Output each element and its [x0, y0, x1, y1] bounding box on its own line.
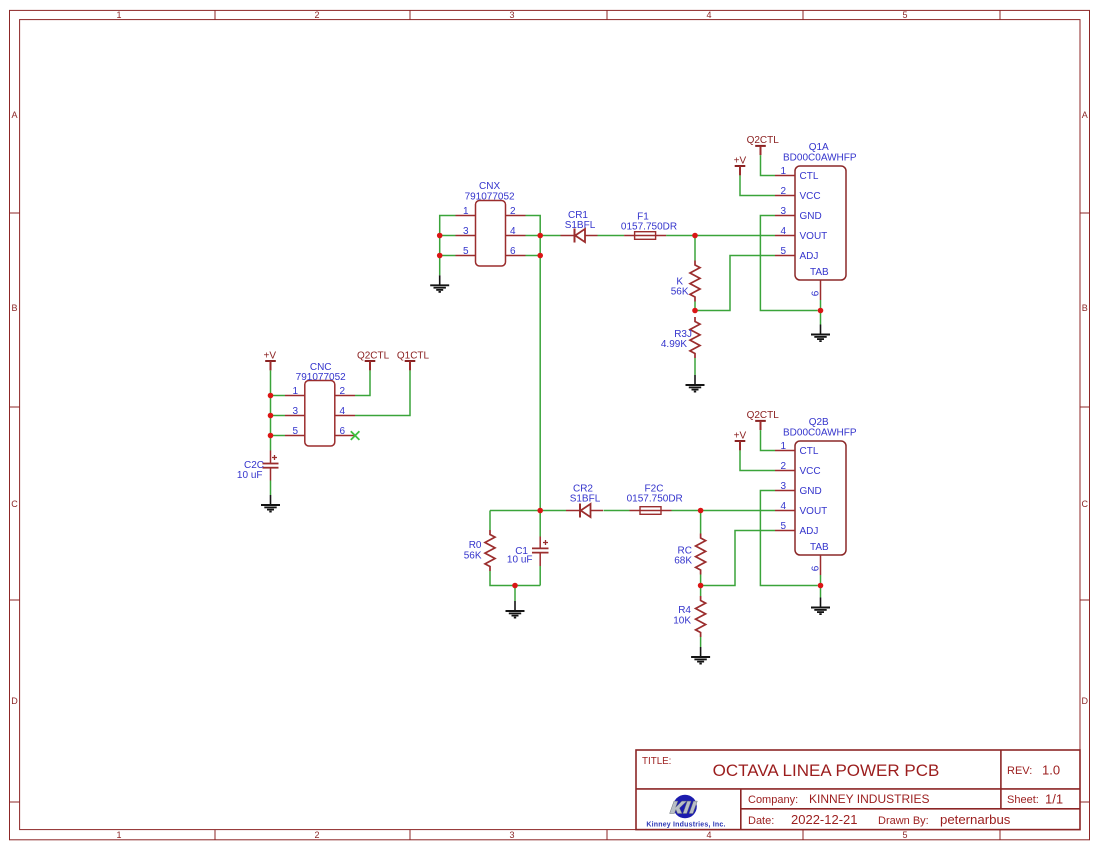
- svg-text:6: 6: [811, 565, 822, 571]
- resistor R0: [485, 530, 495, 571]
- wire R0/C1 node to ground: [514, 586, 516, 602]
- svg-text:0157.750DR: 0157.750DR: [627, 494, 683, 505]
- svg-text:Kinney Industries, Inc.: Kinney Industries, Inc.: [646, 822, 725, 829]
- resistor R3J: [690, 317, 700, 358]
- wire C1 bottom to rail: [539, 566, 541, 586]
- svg-text:6: 6: [340, 426, 346, 437]
- svg-text:1: 1: [116, 830, 121, 840]
- svg-text:4: 4: [340, 406, 346, 417]
- svg-text:BD00C0AWHFP: BD00C0AWHFP: [783, 427, 857, 438]
- svg-text:1: 1: [463, 206, 469, 217]
- junction main net at K resistor: [692, 233, 698, 239]
- svg-text:VOUT: VOUT: [800, 231, 828, 242]
- svg-text:Date:: Date:: [748, 815, 774, 827]
- svg-text:Q2CTL: Q2CTL: [747, 135, 780, 146]
- wire +V to Q1A VCC pin: [740, 175, 775, 195]
- svg-text:+V: +V: [734, 431, 747, 442]
- svg-text:S1BFL: S1BFL: [570, 494, 601, 505]
- svg-text:S1BFL: S1BFL: [565, 220, 596, 231]
- svg-text:2022-12-21: 2022-12-21: [791, 812, 858, 827]
- svg-text:5: 5: [902, 10, 907, 20]
- company logo: [646, 795, 725, 829]
- wire +V rail down to C2C: [271, 370, 286, 450]
- power symbol +V at Q1A: [734, 156, 747, 176]
- svg-text:4: 4: [510, 226, 516, 237]
- wire Q1A tab to ground node: [820, 300, 822, 325]
- wire R0 top lead: [489, 511, 491, 531]
- wire main net to CR1 and Q1A VOUT: [540, 235, 775, 237]
- ground below CNX: [430, 275, 449, 292]
- junction CNC pin1 rail: [268, 393, 274, 399]
- svg-text:1.0: 1.0: [1042, 763, 1060, 778]
- junction CNX pin4 rail: [537, 233, 543, 239]
- wire Q2B GND pin to tab node: [760, 491, 817, 586]
- svg-text:10 uF: 10 uF: [237, 470, 263, 481]
- wire C2C to ground: [270, 481, 272, 496]
- svg-text:peternarbus: peternarbus: [940, 812, 1011, 827]
- svg-text:C: C: [11, 499, 18, 509]
- fuse F1: [624, 232, 666, 240]
- junction lower main net at RC: [698, 508, 704, 514]
- svg-text:3: 3: [509, 10, 514, 20]
- resistor R4: [700, 586, 702, 597]
- svg-text:D: D: [11, 696, 18, 706]
- power symbol +V at CNC: [264, 351, 277, 371]
- svg-text:GND: GND: [800, 486, 822, 497]
- net label Q2CTL at Q1A: [747, 135, 780, 155]
- junction CNX pin3 rail: [437, 233, 443, 239]
- svg-text:4: 4: [706, 10, 711, 20]
- title block: [636, 750, 1080, 830]
- svg-text:D: D: [1081, 696, 1088, 706]
- svg-text:56K: 56K: [464, 551, 482, 562]
- svg-text:4: 4: [780, 501, 786, 512]
- wire Q1A GND pin to tab node: [760, 216, 817, 311]
- svg-text:10K: 10K: [673, 615, 691, 626]
- svg-text:5: 5: [463, 246, 469, 257]
- svg-text:5: 5: [292, 426, 298, 437]
- wire R3J bottom lead: [694, 358, 696, 375]
- diode CR1: [561, 229, 598, 243]
- junction CNC pin5 rail: [268, 433, 274, 439]
- svg-text:Company:: Company:: [748, 794, 798, 806]
- regulator Q2B: [775, 441, 846, 575]
- svg-text:2: 2: [314, 830, 319, 840]
- svg-text:B: B: [1082, 303, 1088, 313]
- wire K resistor top lead: [694, 236, 696, 261]
- svg-text:3: 3: [509, 830, 514, 840]
- svg-text:5: 5: [780, 246, 786, 257]
- wire RC bottom lead: [700, 575, 702, 586]
- ground below R4: [691, 647, 710, 664]
- capacitor C2C: [263, 451, 279, 481]
- regulator Q1A: [775, 166, 846, 300]
- svg-text:3: 3: [292, 406, 298, 417]
- svg-text:C: C: [1081, 499, 1088, 509]
- junction Q2B tab ground node: [818, 583, 824, 589]
- svg-text:4: 4: [780, 226, 786, 237]
- junction lower main net at C1: [537, 508, 543, 514]
- svg-text:CTL: CTL: [800, 446, 819, 457]
- svg-text:1: 1: [292, 386, 298, 397]
- svg-text:6: 6: [510, 246, 516, 257]
- no-connect X at CNC pin6: [351, 431, 360, 440]
- svg-text:2: 2: [780, 461, 786, 472]
- wire K bottom lead: [694, 302, 696, 311]
- svg-text:2: 2: [314, 10, 319, 20]
- junction K / R3J node: [692, 308, 698, 314]
- svg-text:VOUT: VOUT: [800, 506, 828, 517]
- svg-text:0157.750DR: 0157.750DR: [621, 222, 677, 233]
- wire Q2B tab to ground node: [820, 575, 822, 598]
- svg-text:BD00C0AWHFP: BD00C0AWHFP: [783, 152, 857, 163]
- svg-text:CNX: CNX: [479, 181, 500, 192]
- svg-text:R0: R0: [469, 540, 482, 551]
- wire Q2CTL to Q2B CTL pin: [761, 430, 776, 450]
- svg-text:ADJ: ADJ: [800, 251, 819, 262]
- svg-text:6: 6: [811, 290, 822, 296]
- svg-text:1: 1: [780, 166, 786, 177]
- junction CNC pin3 rail: [268, 413, 274, 419]
- ground below R3J: [686, 375, 705, 392]
- svg-text:Q2CTL: Q2CTL: [357, 351, 390, 362]
- svg-text:OCTAVA LINEA POWER PCB: OCTAVA LINEA POWER PCB: [713, 761, 940, 780]
- svg-text:A: A: [1082, 110, 1088, 120]
- svg-text:Drawn By:: Drawn By:: [878, 815, 929, 827]
- svg-text:3: 3: [780, 481, 786, 492]
- power symbol +V at Q2B: [734, 431, 747, 451]
- svg-text:Sheet:: Sheet:: [1007, 794, 1039, 806]
- ground below Q2B: [811, 598, 830, 615]
- svg-text:VCC: VCC: [800, 466, 821, 477]
- junction CNX pin6 rail: [537, 253, 543, 259]
- junction CNX pin5 rail: [437, 253, 443, 259]
- svg-text:791077052: 791077052: [465, 192, 515, 203]
- svg-text:TITLE:: TITLE:: [642, 756, 671, 767]
- svg-text:1/1: 1/1: [1045, 792, 1063, 807]
- wire lower main net R0 to Q2B VOUT: [490, 510, 775, 512]
- net label Q2CTL at CNC: [357, 351, 390, 371]
- svg-text:+V: +V: [734, 156, 747, 167]
- svg-text:Q1CTL: Q1CTL: [397, 351, 430, 362]
- svg-text:3: 3: [780, 206, 786, 217]
- diode CR2: [566, 504, 603, 518]
- connector CNX: [456, 201, 526, 267]
- junction RC / R4 node: [698, 583, 704, 589]
- svg-text:KINNEY INDUSTRIES: KINNEY INDUSTRIES: [809, 792, 929, 806]
- wire Q2CTL to Q1A CTL pin: [761, 155, 776, 175]
- svg-text:4: 4: [706, 830, 711, 840]
- svg-text:5: 5: [902, 830, 907, 840]
- svg-text:REV:: REV:: [1007, 765, 1032, 777]
- wire Q2B ADJ pin to RC/R4 node: [701, 531, 775, 586]
- junction R0/C1 ground node: [512, 583, 518, 589]
- svg-text:3: 3: [463, 226, 469, 237]
- svg-text:A: A: [11, 110, 17, 120]
- svg-text:TAB: TAB: [810, 542, 829, 553]
- wire CNX left rail to ground: [440, 216, 456, 276]
- svg-text:VCC: VCC: [800, 191, 821, 202]
- net label Q2CTL at Q2B: [747, 410, 780, 430]
- svg-text:ADJ: ADJ: [800, 526, 819, 537]
- svg-text:2: 2: [340, 386, 346, 397]
- ground below R0/C1: [506, 601, 525, 618]
- svg-text:+V: +V: [264, 351, 277, 362]
- svg-text:4.99K: 4.99K: [661, 339, 687, 350]
- svg-text:Q2CTL: Q2CTL: [747, 410, 780, 421]
- svg-text:GND: GND: [800, 211, 822, 222]
- connector CNC: [285, 381, 355, 447]
- svg-text:TAB: TAB: [810, 267, 829, 278]
- resistor RC: [696, 534, 706, 575]
- wire R4 bottom lead: [700, 637, 702, 647]
- wire ADJ net from divider to Q1A ADJ pin: [695, 256, 775, 311]
- svg-text:56K: 56K: [671, 287, 689, 298]
- svg-text:10 uF: 10 uF: [507, 555, 533, 566]
- svg-text:1: 1: [780, 441, 786, 452]
- svg-text:68K: 68K: [674, 556, 692, 567]
- wire CNX right rail down to lower circuit: [526, 216, 541, 511]
- svg-text:CTL: CTL: [800, 171, 819, 182]
- wire +V to Q2B VCC pin: [740, 450, 775, 470]
- ground below C2C: [261, 495, 280, 512]
- wire RC top lead: [700, 511, 702, 534]
- svg-text:2: 2: [780, 186, 786, 197]
- capacitor C1: [532, 511, 549, 567]
- wire CNC pin2 to Q2CTL: [355, 370, 370, 395]
- wire R0 bottom to rail: [490, 571, 540, 586]
- svg-text:2: 2: [510, 206, 516, 217]
- svg-text:1: 1: [116, 10, 121, 20]
- ground below Q1A: [811, 325, 830, 342]
- resistor K: [690, 261, 700, 302]
- svg-text:B: B: [11, 303, 17, 313]
- svg-text:5: 5: [780, 521, 786, 532]
- wire CNC pin4 to Q1CTL: [355, 370, 410, 415]
- junction Q1A tab ground node: [818, 308, 824, 314]
- fuse F2C: [630, 507, 672, 515]
- svg-text:791077052: 791077052: [296, 372, 346, 383]
- net label Q1CTL at CNC: [397, 351, 430, 371]
